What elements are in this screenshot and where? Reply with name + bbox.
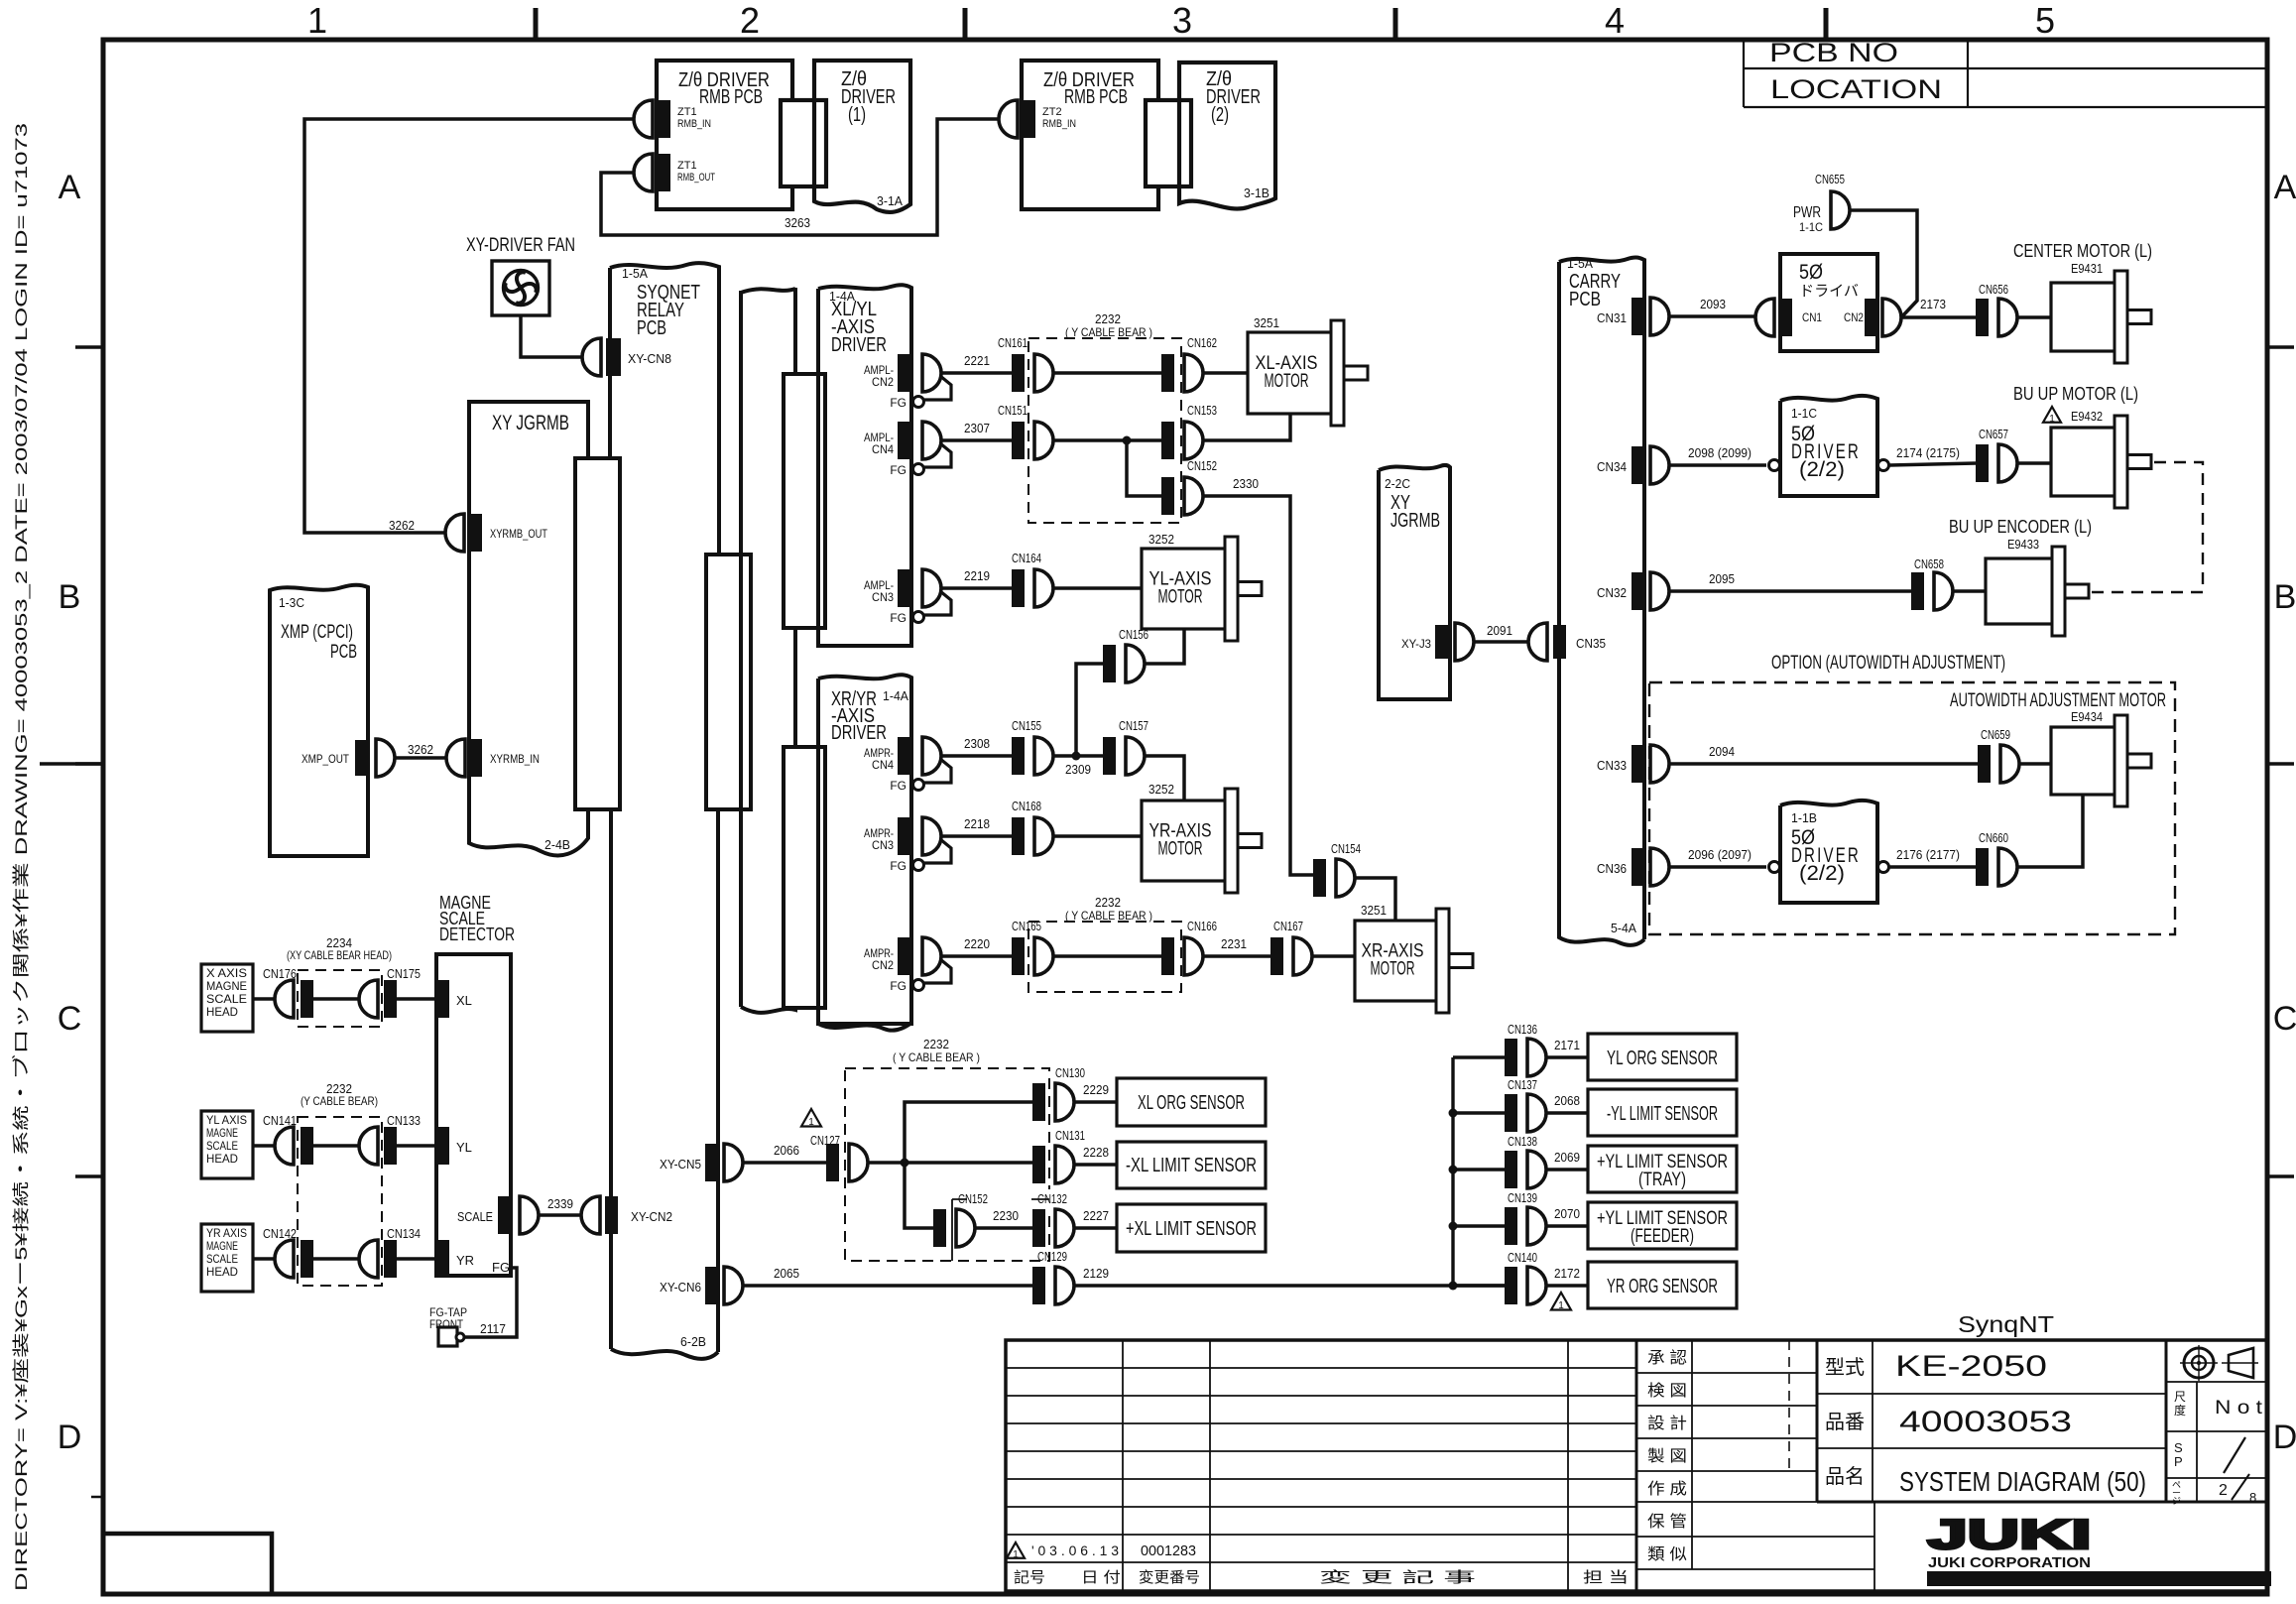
wire 2096	[1669, 865, 1766, 869]
wire 2339	[539, 1213, 582, 1217]
svg-text:PCB: PCB	[637, 317, 666, 339]
svg-text:RMB PCB: RMB PCB	[1064, 86, 1128, 108]
svg-text:FRONT: FRONT	[429, 1317, 464, 1331]
-XL LIMIT SENSOR box	[1117, 1142, 1266, 1188]
svg-text:CN166: CN166	[1187, 919, 1217, 933]
wire to center motor	[2017, 315, 2051, 319]
connector AMPL-CN4	[898, 422, 910, 459]
svg-text:JGRMB: JGRMB	[1390, 510, 1440, 532]
svg-text:CN139: CN139	[1508, 1190, 1537, 1205]
svg-text:CN34: CN34	[1597, 459, 1627, 474]
detector YL bar	[436, 1127, 449, 1165]
svg-text:3263: 3263	[785, 215, 810, 230]
svg-text:BU UP ENCODER (L): BU UP ENCODER (L)	[1949, 517, 2092, 537]
svg-text:ZT2: ZT2	[1042, 106, 1062, 118]
wire to encoder	[1953, 589, 1986, 593]
svg-text:CN175: CN175	[387, 966, 421, 981]
svg-text:E9431: E9431	[2071, 261, 2103, 276]
wire to BU UP motor	[2017, 461, 2051, 465]
connector CN32	[1631, 572, 1644, 610]
svg-text:XMP_OUT: XMP_OUT	[302, 752, 350, 766]
svg-text:CN33: CN33	[1597, 758, 1627, 773]
svg-text:BU UP MOTOR (L): BU UP MOTOR (L)	[2013, 384, 2138, 404]
YL ORG SENSOR box	[1588, 1034, 1737, 1080]
svg-text:1-3C: 1-3C	[279, 595, 304, 610]
connector CN151	[1012, 422, 1025, 459]
svg-text:2129: 2129	[1083, 1266, 1109, 1281]
svg-text:ZT1: ZT1	[677, 160, 697, 172]
connector rect 2 (SYQNET / duct)	[706, 555, 751, 809]
connector XY-J3	[1435, 625, 1448, 659]
5-phi driver box (CN1/CN2)	[1780, 254, 1877, 351]
connector AMPR-CN2	[898, 937, 910, 975]
svg-text:品名: 品名	[1825, 1465, 1865, 1488]
svg-text:CN155: CN155	[1012, 718, 1041, 733]
connector ZT2 RMB_IN	[1023, 100, 1035, 138]
svg-text:SCALE: SCALE	[206, 1139, 238, 1153]
svg-text:DETECTOR: DETECTOR	[439, 925, 515, 944]
svg-text:YL ORG SENSOR: YL ORG SENSOR	[1607, 1048, 1718, 1069]
svg-text:検 図: 検 図	[1647, 1382, 1687, 1400]
svg-text:YL AXIS: YL AXIS	[206, 1113, 247, 1127]
svg-text:2231: 2231	[1221, 936, 1247, 951]
svg-text:5Ø: 5Ø	[1799, 261, 1823, 284]
svg-text:JUKI CORPORATION: JUKI CORPORATION	[1928, 1554, 2091, 1571]
wire 2176	[1889, 865, 1976, 869]
XL/YL-AXIS DRIVER box	[818, 285, 911, 646]
grid ticks top	[534, 8, 539, 40]
svg-text:2218: 2218	[964, 816, 990, 831]
svg-text:PCB: PCB	[330, 642, 357, 663]
svg-text:2232: 2232	[1095, 895, 1121, 910]
YR AXIS MAGNE SCALE HEAD box	[201, 1224, 253, 1292]
svg-text:CN31: CN31	[1597, 310, 1627, 325]
svg-text:MAGNE: MAGNE	[206, 1239, 238, 1253]
XMP (CPCI) PCB box	[270, 585, 368, 856]
connector XMP_OUT	[355, 740, 368, 776]
svg-text:CN656: CN656	[1979, 282, 2008, 297]
svg-text:(2/2): (2/2)	[1799, 458, 1845, 481]
svg-text:CN130: CN130	[1055, 1065, 1085, 1080]
middle section frame	[1635, 1340, 1638, 1591]
svg-text:2096 (2097): 2096 (2097)	[1688, 847, 1752, 862]
connector CN35	[1528, 623, 1547, 661]
svg-text:ジ: ジ	[2172, 1496, 2181, 1506]
branch to CN137	[1453, 1111, 1505, 1115]
wire CN151-CN153	[1053, 438, 1161, 442]
svg-text:CN133: CN133	[387, 1113, 421, 1128]
svg-text:FG: FG	[890, 779, 906, 793]
svg-text:CENTER MOTOR (L): CENTER MOTOR (L)	[2013, 241, 2152, 261]
svg-text:CN655: CN655	[1815, 172, 1845, 186]
svg-text:CN161: CN161	[998, 335, 1027, 350]
wire YL motor to CN156	[1145, 629, 1184, 664]
connector CN166	[1161, 937, 1174, 975]
wire 2330	[1203, 496, 1313, 875]
svg-text:CN35: CN35	[1576, 636, 1606, 651]
connector CN33	[1631, 745, 1644, 783]
svg-text:' 0 3 . 0 6 . 1 3: ' 0 3 . 0 6 . 1 3	[1031, 1542, 1119, 1558]
connector AMPL-CN3	[898, 569, 910, 607]
svg-text:CN131: CN131	[1055, 1128, 1085, 1143]
svg-text:2: 2	[740, 0, 760, 41]
Y cable bear dashed box (heads)	[298, 1117, 382, 1286]
svg-text:変 更 記 事: 変 更 記 事	[1319, 1569, 1476, 1586]
svg-text:YR: YR	[456, 1253, 474, 1268]
svg-text:(2): (2)	[1211, 104, 1229, 126]
svg-text:2173: 2173	[1920, 297, 1946, 311]
svg-text:2220: 2220	[964, 936, 990, 951]
connector XYRMB_OUT	[469, 514, 482, 552]
CARRY PCB box	[1559, 257, 1644, 944]
svg-text:品番: 品番	[1825, 1411, 1865, 1433]
svg-text:CN152: CN152	[1187, 458, 1217, 473]
svg-text:-XL LIMIT SENSOR: -XL LIMIT SENSOR	[1126, 1155, 1257, 1176]
svg-text:2339: 2339	[547, 1196, 573, 1211]
wire 2308	[941, 754, 1012, 758]
svg-text:3251: 3251	[1361, 903, 1387, 918]
svg-text:PCB NO: PCB NO	[1769, 38, 1898, 67]
svg-text:C: C	[2273, 1000, 2296, 1038]
svg-text:(2/2): (2/2)	[1799, 862, 1845, 885]
XR/YR-AXIS DRIVER box	[818, 675, 911, 1024]
svg-text:2: 2	[2219, 1482, 2228, 1499]
connector CN168	[1012, 817, 1025, 855]
Y cable bear dashed box (sensors)	[845, 1068, 1049, 1261]
svg-text:型式: 型式	[1825, 1356, 1865, 1379]
wire CN165-CN166	[1053, 954, 1161, 958]
connector CN164	[1012, 569, 1025, 607]
Y cable bear dashed box (XR)	[1028, 922, 1181, 992]
svg-text:(TRAY): (TRAY)	[1638, 1170, 1686, 1190]
svg-text:2068: 2068	[1554, 1093, 1580, 1108]
svg-text:RMB PCB: RMB PCB	[699, 86, 763, 108]
svg-text:2230: 2230	[993, 1208, 1019, 1223]
svg-text:YR AXIS: YR AXIS	[206, 1226, 247, 1240]
wire 2173	[1901, 315, 1976, 319]
svg-text:変更番号: 変更番号	[1139, 1569, 1200, 1586]
warning triangle YR ORG	[1551, 1293, 1571, 1310]
svg-text:2219: 2219	[964, 568, 990, 583]
svg-text:HEAD: HEAD	[206, 1152, 238, 1166]
connector CN157	[1103, 737, 1116, 775]
svg-text:PWR: PWR	[1793, 204, 1821, 221]
svg-text:SCALE: SCALE	[206, 992, 247, 1006]
svg-text:1-5A: 1-5A	[1567, 256, 1593, 271]
svg-text:CN162: CN162	[1187, 335, 1217, 350]
svg-text:DIRECTORY= V:¥座装¥Gxー5¥接続・系統・ブロ: DIRECTORY= V:¥座装¥Gxー5¥接続・系統・ブロック関係¥作業 DR…	[11, 123, 31, 1591]
svg-text:2174 (2175): 2174 (2175)	[1896, 445, 1960, 460]
svg-text:3252: 3252	[1148, 782, 1174, 797]
svg-text:MOTOR: MOTOR	[1158, 587, 1203, 608]
svg-text:1: 1	[307, 0, 327, 41]
svg-text:CN157: CN157	[1119, 718, 1148, 733]
svg-text:XYRMB_IN: XYRMB_IN	[490, 752, 540, 766]
svg-text:3262: 3262	[389, 518, 415, 533]
svg-text:CN3: CN3	[872, 590, 894, 604]
svg-text:S: S	[2174, 1440, 2183, 1455]
svg-text:XMP (CPCI): XMP (CPCI)	[281, 622, 353, 643]
third angle projection symbol	[2184, 1348, 2214, 1378]
svg-text:CN153: CN153	[1187, 403, 1217, 418]
svg-text:(1): (1)	[848, 104, 866, 126]
svg-text:CN657: CN657	[1979, 427, 2008, 441]
branch to CN136	[1453, 1055, 1505, 1059]
cable bear bar/dome YR row	[301, 1240, 313, 1278]
svg-text:2232: 2232	[923, 1037, 949, 1051]
svg-text:CN167: CN167	[1273, 919, 1303, 933]
svg-text:40003053: 40003053	[1899, 1406, 2072, 1438]
grid ticks left/right	[75, 345, 103, 349]
svg-text:2070: 2070	[1554, 1206, 1580, 1221]
wire CN161-CN162	[1053, 371, 1161, 375]
5-phi DRIVER (2/2) box 1-1C	[1780, 396, 1877, 496]
detector XL bar	[436, 980, 449, 1018]
svg-text:+XL LIMIT SENSOR: +XL LIMIT SENSOR	[1126, 1218, 1257, 1240]
bottom-left corner box	[103, 1534, 272, 1594]
connector CN152	[1161, 477, 1174, 515]
svg-text:DRIVER: DRIVER	[831, 722, 887, 744]
svg-text:3252: 3252	[1148, 532, 1174, 547]
svg-text:C: C	[58, 1000, 82, 1038]
svg-text:-YL LIMIT SENSOR: -YL LIMIT SENSOR	[1607, 1103, 1718, 1125]
JUKI logo area	[1873, 1502, 1875, 1591]
connector AMPL-CN2	[898, 354, 910, 392]
svg-text:度: 度	[2174, 1403, 2186, 1418]
YR ORG SENSOR box	[1588, 1262, 1737, 1308]
svg-text:1-4A: 1-4A	[883, 688, 908, 703]
wire to junction	[868, 1161, 1032, 1165]
branch to CN140	[1453, 1284, 1505, 1288]
right info section	[1872, 1340, 1873, 1502]
svg-text:2229: 2229	[1083, 1082, 1109, 1097]
svg-text:MAGNE: MAGNE	[206, 1126, 238, 1140]
branch up to CN130	[905, 1102, 1032, 1163]
svg-text:YL: YL	[456, 1140, 472, 1155]
svg-text:2095: 2095	[1709, 571, 1735, 586]
svg-text:CN2: CN2	[1844, 310, 1864, 324]
svg-text:YR ORG SENSOR: YR ORG SENSOR	[1607, 1276, 1718, 1297]
OPTION dashed box	[1649, 682, 2175, 934]
svg-text:SynqNT: SynqNT	[1958, 1311, 2054, 1337]
svg-text:CN168: CN168	[1012, 799, 1041, 813]
svg-text:SYSTEM DIAGRAM (50): SYSTEM DIAGRAM (50)	[1899, 1466, 2146, 1497]
svg-text:N o t: N o t	[2215, 1398, 2263, 1419]
svg-text:2094: 2094	[1709, 744, 1735, 759]
svg-text:CN4: CN4	[872, 442, 894, 456]
wire 2174	[1889, 463, 1976, 465]
svg-text:CN2: CN2	[872, 958, 894, 972]
wire CN153 to XL motor bottom	[1203, 414, 1290, 440]
left margin directory text (rotated)	[11, 123, 31, 1591]
connector XY-CN8	[582, 338, 601, 376]
svg-text:FG: FG	[492, 1260, 510, 1275]
connector CN153	[1161, 422, 1174, 459]
svg-text:1: 1	[2049, 414, 2055, 425]
wire 2098	[1669, 463, 1766, 467]
duct B vertical lines down to 6-2B	[609, 809, 613, 1349]
connector rect 1 (XY JGRMB / SYQNET)	[575, 458, 620, 809]
wire CN660 to autowidth motor	[2017, 795, 2083, 867]
Z/0 DRIVER RMB PCB (ZT1) box	[657, 61, 792, 209]
svg-text:MOTOR: MOTOR	[1158, 839, 1203, 860]
svg-text:FG: FG	[890, 979, 906, 993]
wire drop to CN152	[1127, 440, 1161, 496]
svg-text:CN137: CN137	[1508, 1077, 1537, 1092]
svg-text:2069: 2069	[1554, 1150, 1580, 1165]
svg-text:1-1C: 1-1C	[1791, 406, 1817, 421]
svg-text:1: 1	[1013, 1549, 1019, 1560]
wire 2220	[941, 954, 1012, 958]
connector AMPR-CN4	[898, 737, 910, 775]
right symbols section	[2165, 1340, 2168, 1502]
svg-text:XYRMB_OUT: XYRMB_OUT	[490, 527, 548, 541]
Z/0 DRIVER (2) box	[1179, 62, 1275, 209]
svg-text:設 計: 設 計	[1647, 1415, 1687, 1432]
svg-text:2171: 2171	[1554, 1038, 1580, 1052]
wire to XR motor	[1312, 954, 1355, 958]
svg-text:2228: 2228	[1083, 1145, 1109, 1160]
svg-text:CN151: CN151	[998, 403, 1027, 418]
svg-text:CN1: CN1	[1802, 310, 1822, 324]
svg-text:(FEEDER): (FEEDER)	[1631, 1226, 1694, 1247]
svg-text:日 付: 日 付	[1081, 1569, 1121, 1586]
svg-text:承 認: 承 認	[1647, 1349, 1687, 1367]
XY JGRMB box	[469, 402, 588, 855]
svg-text:( Y CABLE BEAR ): ( Y CABLE BEAR )	[1065, 325, 1152, 339]
wire CN156 to junction 2309	[1076, 664, 1103, 756]
svg-text:XY-CN5: XY-CN5	[660, 1157, 701, 1172]
wire 2093	[1669, 314, 1756, 318]
svg-text:製 図: 製 図	[1647, 1447, 1687, 1465]
+YL LIMIT SENSOR box	[1588, 1146, 1737, 1192]
wire 2094	[1669, 762, 1978, 766]
connector XY-CN6	[705, 1267, 718, 1304]
svg-text:2066: 2066	[774, 1143, 799, 1158]
connector XY-CN2	[581, 1196, 600, 1234]
svg-text:HEAD: HEAD	[206, 1005, 238, 1019]
svg-text:RMB_IN: RMB_IN	[1042, 118, 1076, 130]
X AXIS MAGNE SCALE HEAD box	[201, 964, 253, 1032]
wire to YR motor	[1053, 834, 1142, 838]
wire 2091	[1474, 640, 1528, 644]
svg-text:類 似: 類 似	[1647, 1545, 1687, 1563]
svg-text:8: 8	[2249, 1490, 2256, 1505]
svg-text:CN4: CN4	[872, 758, 894, 772]
svg-text:CN36: CN36	[1597, 861, 1627, 876]
svg-text:OPTION (AUTOWIDTH ADJUSTMENT): OPTION (AUTOWIDTH ADJUSTMENT)	[1771, 653, 2005, 674]
svg-text:保 管: 保 管	[1647, 1513, 1687, 1531]
svg-text:FG: FG	[890, 463, 906, 477]
svg-text:2176 (2177): 2176 (2177)	[1896, 847, 1960, 862]
svg-text:( Y CABLE BEAR ): ( Y CABLE BEAR )	[1065, 909, 1152, 923]
svg-text:MOTOR: MOTOR	[1265, 371, 1309, 392]
svg-text:2308: 2308	[964, 736, 990, 751]
revision table columns	[1122, 1340, 1124, 1591]
connector XY-CN5	[705, 1144, 718, 1181]
Y cable bear dashed box (XL)	[1028, 338, 1181, 523]
XY JGRMB (2-2C) box	[1379, 465, 1450, 699]
svg-text:SCALE: SCALE	[206, 1252, 238, 1266]
wire 2230	[975, 1226, 1032, 1230]
connector rect 4	[784, 747, 825, 1008]
svg-text:XY-CN6: XY-CN6	[660, 1280, 701, 1295]
connector CN161	[1012, 354, 1025, 392]
svg-text:2-4B: 2-4B	[544, 837, 570, 852]
svg-text:X AXIS: X AXIS	[206, 966, 247, 980]
svg-text:CN32: CN32	[1597, 585, 1627, 600]
svg-text:2227: 2227	[1083, 1208, 1109, 1223]
svg-text:E9434: E9434	[2071, 709, 2103, 724]
svg-text:2307: 2307	[964, 421, 990, 435]
warning triangle CN127	[801, 1109, 821, 1127]
sensor bus vertical	[1451, 1057, 1454, 1286]
connector CN34	[1631, 446, 1644, 484]
wire 2219	[941, 586, 1012, 590]
wire 2066	[743, 1161, 826, 1165]
svg-text:XY JGRMB: XY JGRMB	[492, 412, 569, 434]
svg-text:XL: XL	[456, 993, 472, 1008]
wire 2231	[1203, 954, 1270, 958]
svg-text:JUKI: JUKI	[1928, 1511, 2092, 1557]
svg-text:2330: 2330	[1233, 476, 1259, 491]
svg-text:2093: 2093	[1700, 297, 1726, 311]
svg-text:(XY CABLE BEAR HEAD): (XY CABLE BEAR HEAD)	[287, 948, 392, 962]
svg-text:3251: 3251	[1254, 315, 1279, 330]
svg-text:FG: FG	[890, 611, 906, 625]
svg-text:2-2C: 2-2C	[1385, 476, 1410, 491]
branch down to CN152L	[905, 1163, 933, 1228]
svg-text:1-5A: 1-5A	[622, 266, 648, 281]
svg-text:P: P	[2174, 1454, 2183, 1469]
svg-text:2091: 2091	[1487, 623, 1512, 638]
connector ZT1 RMB_IN	[658, 100, 670, 138]
svg-text:XY-DRIVER FAN: XY-DRIVER FAN	[466, 235, 575, 256]
svg-text:CN136: CN136	[1508, 1022, 1537, 1037]
svg-text:CN140: CN140	[1508, 1250, 1537, 1265]
svg-text:CN129: CN129	[1037, 1249, 1067, 1264]
svg-text:ドライバ: ドライバ	[1799, 283, 1859, 300]
svg-text:SCALE: SCALE	[457, 1209, 493, 1224]
svg-text:2098 (2099): 2098 (2099)	[1688, 445, 1752, 460]
svg-text:CN164: CN164	[1012, 551, 1041, 565]
svg-text:XL ORG SENSOR: XL ORG SENSOR	[1138, 1092, 1245, 1114]
svg-text:KE-2050: KE-2050	[1895, 1350, 2047, 1383]
wire 3262 loop : RMB_IN to XYRMB_OUT	[304, 119, 634, 533]
wire 2307	[941, 438, 1012, 442]
svg-text:B: B	[59, 578, 81, 616]
XL ORG SENSOR box	[1117, 1078, 1266, 1126]
PCB NO / LOCATION table	[1743, 42, 1745, 107]
svg-text:RMB_IN: RMB_IN	[677, 118, 711, 130]
svg-text:MAGNE: MAGNE	[206, 979, 247, 993]
svg-text:5-4A: 5-4A	[1611, 921, 1636, 935]
svg-text:CN2: CN2	[872, 375, 894, 389]
+YL LIMIT SENSOR box	[1588, 1202, 1737, 1249]
connector AMPR-CN3	[898, 817, 910, 855]
svg-text:E9432: E9432	[2071, 409, 2103, 424]
svg-text:6-2B: 6-2B	[680, 1334, 706, 1349]
svg-text:2221: 2221	[964, 353, 990, 368]
wire 2228	[1074, 1163, 1117, 1167]
wire CN155-CN157	[1053, 754, 1103, 758]
svg-text:CN658: CN658	[1914, 556, 1944, 571]
svg-text:CN660: CN660	[1979, 830, 2008, 845]
svg-text:FG: FG	[890, 859, 906, 873]
branch to CN139	[1453, 1224, 1505, 1228]
svg-text:CN134: CN134	[387, 1226, 421, 1241]
svg-text:3262: 3262	[408, 742, 433, 757]
